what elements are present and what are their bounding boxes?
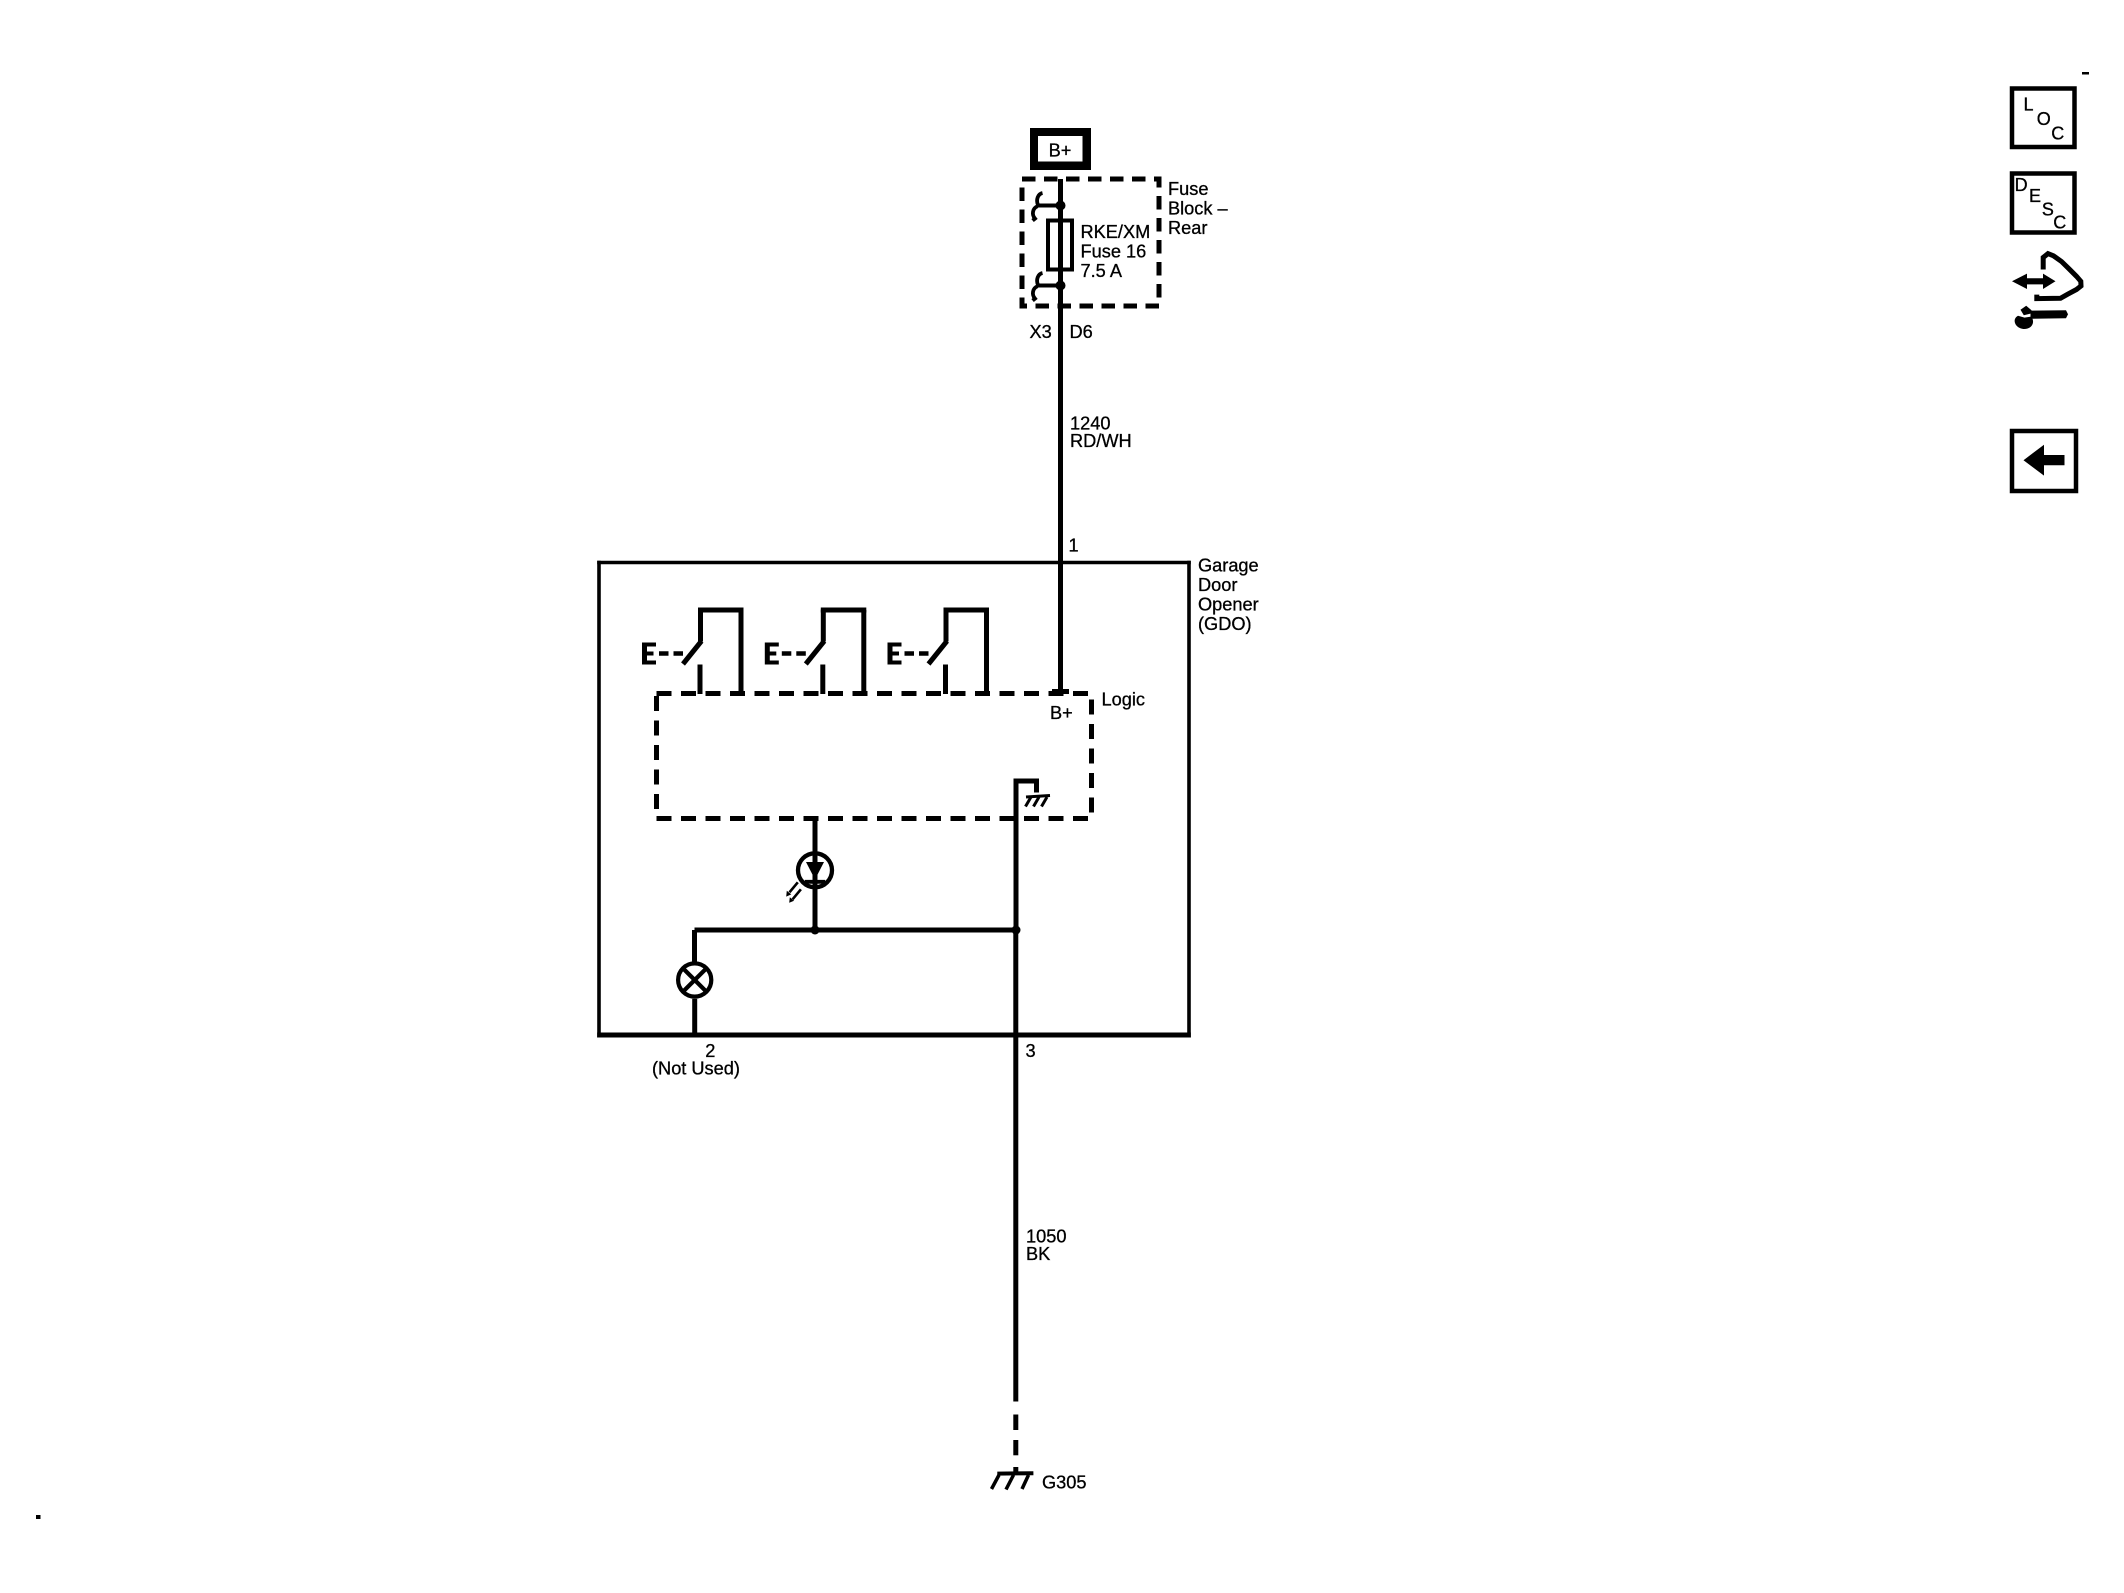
- svg-text:(Not Used): (Not Used): [652, 1059, 740, 1079]
- svg-text:X3: X3: [1030, 322, 1052, 342]
- svg-text:C: C: [2053, 213, 2066, 233]
- svg-text:7.5 A: 7.5 A: [1081, 261, 1123, 281]
- svg-text:Door: Door: [1198, 575, 1237, 595]
- svg-text:RD/WH: RD/WH: [1070, 431, 1132, 451]
- svg-text:(GDO): (GDO): [1198, 614, 1252, 634]
- svg-text:Fuse: Fuse: [1168, 179, 1208, 199]
- svg-text:Fuse 16: Fuse 16: [1081, 241, 1147, 261]
- svg-text:Opener: Opener: [1198, 595, 1259, 615]
- svg-text:G305: G305: [1042, 1472, 1087, 1492]
- svg-text:S: S: [2042, 200, 2054, 220]
- svg-text:Block –: Block –: [1168, 199, 1229, 219]
- svg-text:B+: B+: [1049, 140, 1072, 160]
- svg-text:D: D: [2015, 175, 2028, 195]
- svg-text:L: L: [2024, 95, 2034, 115]
- svg-text:BK: BK: [1026, 1244, 1050, 1264]
- svg-text:RKE/XM: RKE/XM: [1081, 222, 1151, 242]
- svg-text:D6: D6: [1070, 322, 1093, 342]
- svg-text:Garage: Garage: [1198, 556, 1259, 576]
- svg-text:Rear: Rear: [1168, 218, 1207, 238]
- svg-text:E: E: [2029, 186, 2041, 206]
- svg-text:Logic: Logic: [1102, 689, 1145, 709]
- svg-text:B+: B+: [1050, 703, 1073, 723]
- svg-text:C: C: [2051, 124, 2064, 144]
- svg-text:1: 1: [1069, 536, 1079, 556]
- svg-text:3: 3: [1025, 1041, 1035, 1061]
- svg-text:O: O: [2037, 109, 2051, 129]
